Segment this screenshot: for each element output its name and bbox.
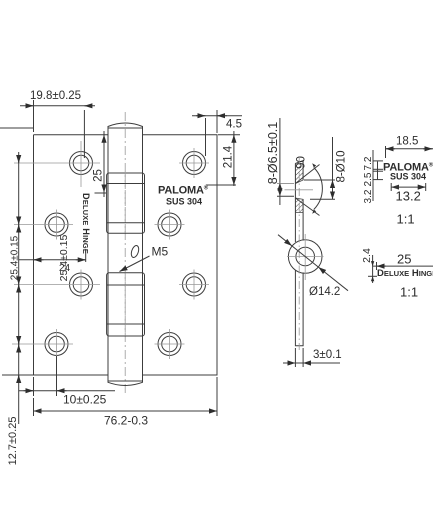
dim 13.2 bbox=[391, 183, 426, 204]
svg-text:DELUXE HINGE: DELUXE HINGE bbox=[81, 193, 91, 254]
svg-text:76.2-0.3: 76.2-0.3 bbox=[104, 414, 148, 428]
dim 10±0.25 bbox=[19, 356, 115, 407]
countersink construction lines bbox=[295, 165, 319, 216]
svg-text:90: 90 bbox=[296, 156, 308, 169]
90 deg arc bbox=[296, 156, 323, 214]
dim 21.4 bbox=[206, 131, 240, 186]
svg-text:1:1: 1:1 bbox=[397, 212, 415, 227]
svg-text:1:1: 1:1 bbox=[400, 285, 418, 300]
svg-text:25.4±0.15: 25.4±0.15 bbox=[9, 235, 20, 280]
hole r4c1 bbox=[45, 329, 68, 359]
svg-text:18.5: 18.5 bbox=[396, 136, 418, 148]
svg-text:8-Ø10: 8-Ø10 bbox=[336, 151, 348, 183]
top right logo block bbox=[386, 136, 433, 159]
countersink section bbox=[295, 161, 303, 213]
barrel circle side view bbox=[287, 234, 324, 280]
svg-text:3±0.1: 3±0.1 bbox=[313, 349, 342, 361]
row center line extensions bbox=[12, 163, 100, 344]
hole r3c2 bbox=[179, 270, 209, 300]
hole r3c1 bbox=[70, 270, 93, 300]
svg-text:24: 24 bbox=[59, 263, 71, 274]
dim 24 horizontal bbox=[19, 249, 86, 274]
svg-text:DELUXE HINGE: DELUXE HINGE bbox=[377, 268, 433, 279]
dim 76.2-0.3 bbox=[34, 377, 218, 428]
barrel center line bbox=[124, 112, 126, 395]
svg-text:2.4: 2.4 bbox=[361, 248, 373, 263]
hole r4c2 bbox=[155, 329, 185, 359]
dim 25 barrel bbox=[93, 131, 107, 197]
svg-text:SUS 304: SUS 304 bbox=[166, 197, 202, 207]
hole r2c1 bbox=[45, 210, 68, 240]
dims 7.2 2.5 3.2 bbox=[363, 150, 383, 203]
svg-text:25: 25 bbox=[397, 252, 411, 267]
svg-text:19.8±0.25: 19.8±0.25 bbox=[30, 90, 81, 102]
svg-text:8-Ø6.5±0.1: 8-Ø6.5±0.1 bbox=[266, 122, 280, 184]
knuckle cartridge upper bbox=[107, 173, 145, 233]
svg-text:Ø14.2: Ø14.2 bbox=[309, 286, 340, 298]
dim 8-Ø10 bbox=[304, 137, 348, 199]
svg-text:13.2: 13.2 bbox=[396, 189, 421, 204]
hole r1c1 bbox=[70, 141, 93, 187]
dim 12.7±0.25 bbox=[2, 336, 34, 465]
dim 4.5 bbox=[192, 110, 242, 156]
svg-text:10±0.25: 10±0.25 bbox=[63, 393, 107, 407]
svg-text:2.5: 2.5 bbox=[363, 172, 374, 186]
side view strip bbox=[295, 161, 303, 346]
dim 19.8±0.25 bbox=[20, 90, 95, 158]
svg-text:25.4±0.15: 25.4±0.15 bbox=[58, 235, 70, 282]
hole r1c2 bbox=[179, 148, 209, 178]
strip center line bbox=[298, 157, 300, 350]
hole r2c2 bbox=[155, 210, 185, 240]
svg-text:25: 25 bbox=[93, 169, 105, 182]
dim 3±0.1 bbox=[283, 348, 342, 367]
hinge plate outline bbox=[34, 135, 218, 375]
svg-text:SUS 304: SUS 304 bbox=[390, 172, 426, 182]
M5 label and leader bbox=[120, 245, 169, 272]
svg-text:M5: M5 bbox=[152, 245, 169, 259]
extension line barrel top left bbox=[0, 127, 34, 129]
svg-text:3.2: 3.2 bbox=[363, 189, 374, 203]
bottom right logo block bbox=[361, 248, 433, 283]
svg-text:PALOMA®: PALOMA® bbox=[158, 185, 209, 197]
dim Ø14.2 bbox=[278, 235, 348, 298]
svg-text:4.5: 4.5 bbox=[226, 119, 242, 131]
svg-text:12.7±0.25: 12.7±0.25 bbox=[7, 417, 19, 466]
chain dim line left bbox=[18, 152, 20, 345]
knuckle cartridge lower bbox=[107, 273, 145, 336]
svg-text:21.4: 21.4 bbox=[223, 145, 235, 168]
dim 8-Ø6.5±0.1 bbox=[266, 118, 294, 205]
svg-text:7.2: 7.2 bbox=[363, 156, 374, 170]
knuckle barrel bbox=[108, 123, 143, 385]
